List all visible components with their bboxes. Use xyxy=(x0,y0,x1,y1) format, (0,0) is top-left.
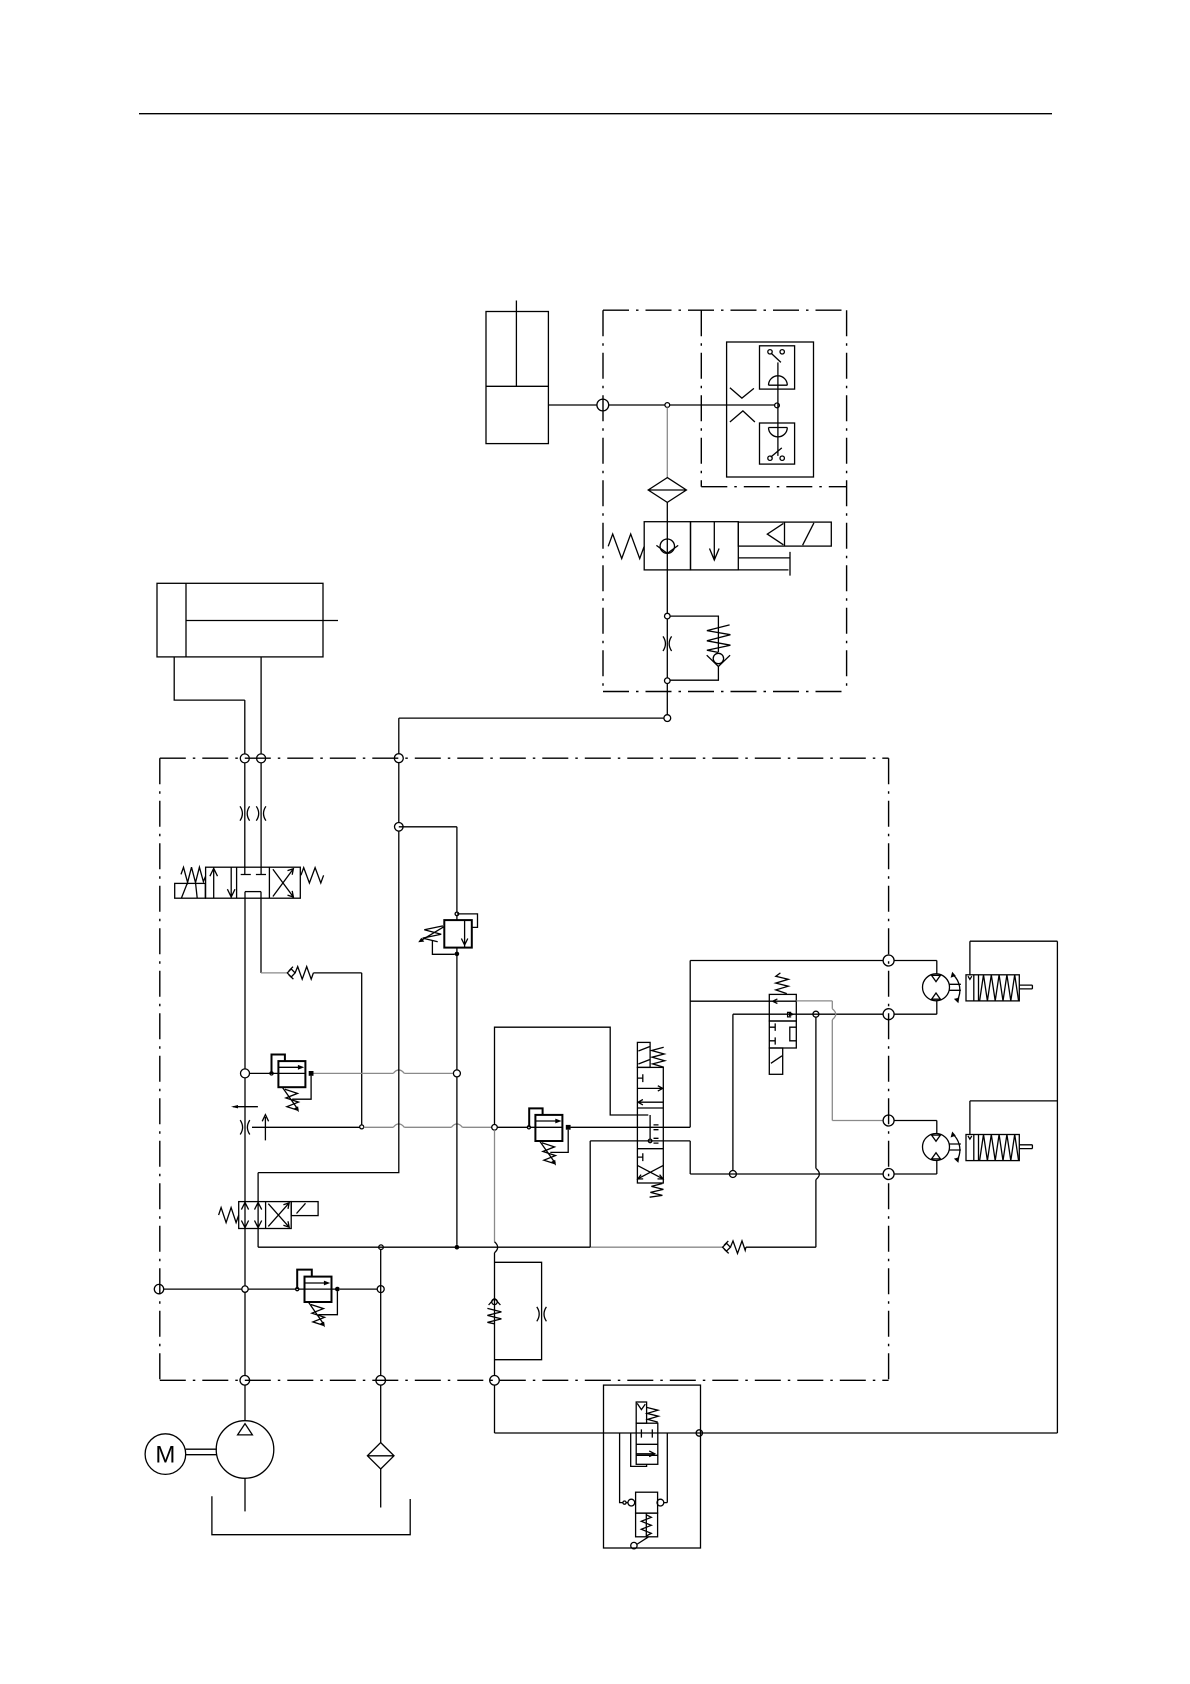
wire pilot supply branch xyxy=(252,1126,360,1128)
check valve CK2 with spring xyxy=(723,1241,746,1254)
node xyxy=(379,1245,384,1250)
valve DV1 (4/3 directional) xyxy=(206,867,301,898)
wire cylinder lines down to DV1 xyxy=(245,763,261,875)
cylinder C1 (top accumulator cylinder) xyxy=(486,301,548,444)
wire gray drain drop xyxy=(494,1130,496,1242)
wire feed line to main box xyxy=(399,718,664,822)
valve TV (vent/unloading) xyxy=(636,1402,658,1464)
node port circle on left edge xyxy=(154,1284,163,1293)
wire gray pilot to relief line xyxy=(314,1072,453,1074)
wire motor port 1 line xyxy=(690,961,883,1128)
return filter F2 xyxy=(367,1443,394,1469)
wire relief drain xyxy=(456,1077,458,1245)
motor M1 xyxy=(923,972,961,1003)
wire supply to left port xyxy=(164,1288,242,1290)
wire motor M1 links xyxy=(894,961,937,1015)
orifice on pump line xyxy=(240,1120,250,1134)
tank T1 xyxy=(212,1496,410,1535)
wire drop from port2 line xyxy=(732,1014,734,1170)
valve PR2 (pressure reducing) xyxy=(497,1108,570,1165)
solenoid DV2 xyxy=(291,1202,318,1216)
node xyxy=(665,613,671,619)
node on pump line xyxy=(241,1069,250,1078)
electric motor M xyxy=(145,1434,186,1475)
wire stack pilot loop xyxy=(495,1027,651,1139)
wire motor M2 links xyxy=(894,1121,937,1175)
wire to junction xyxy=(313,973,361,1125)
pressure switch PS2 (lower) xyxy=(760,423,795,464)
orifice pair on cylinder lines xyxy=(240,806,250,820)
block enclosure (pilot valve block) xyxy=(604,1385,701,1548)
wire below DV2 xyxy=(257,1229,259,1248)
valve LRV (pilot relief with lever) xyxy=(623,1433,667,1549)
dash-dot enclosure (top-right brake release unit) xyxy=(603,310,847,691)
wire tank/drain manifold line xyxy=(258,1246,590,1248)
pressure switch block frame xyxy=(727,342,814,477)
drain arrow on pump line xyxy=(233,1106,258,1108)
node port circle on box edge xyxy=(597,399,609,411)
wire motor port 4 line xyxy=(690,1173,883,1175)
valve V1 (2/2 solenoid brake valve) xyxy=(644,522,738,570)
drain stub V1 xyxy=(738,552,790,576)
throttle arrow xyxy=(262,1115,268,1141)
wire xyxy=(666,502,668,521)
wire C1 to brake block xyxy=(548,404,774,406)
wire DV2 feed jog xyxy=(258,831,399,1202)
cylinder C2 (left) xyxy=(157,583,338,657)
wire C2 ports xyxy=(174,657,261,754)
spring V1 xyxy=(608,534,644,559)
wire cylinder line 2 below valve xyxy=(260,892,262,973)
node xyxy=(453,1070,460,1077)
wire main drop xyxy=(666,570,668,715)
wire selector gray loop xyxy=(796,1001,883,1121)
shaft xyxy=(186,1449,217,1455)
spring DV2 xyxy=(219,1208,239,1223)
brake cylinder B2 xyxy=(966,1135,1032,1161)
node xyxy=(665,678,671,684)
node port circles on box bottom xyxy=(240,1376,250,1386)
node xyxy=(395,823,404,832)
main dash-dot enclosure (power unit) xyxy=(160,758,889,1380)
solenoid+spring DV1 left xyxy=(175,867,206,898)
svg-text:M: M xyxy=(155,1442,175,1469)
node on block edge xyxy=(696,1430,702,1436)
valve PR1 (pressure reducing) xyxy=(270,1055,314,1113)
node port circles on right edge xyxy=(883,955,894,966)
wire pilot drop (gray) xyxy=(666,407,668,477)
motor M2 xyxy=(923,1132,961,1163)
node port circles on box top xyxy=(240,754,249,763)
spring DV1 right xyxy=(301,868,324,883)
node xyxy=(813,1011,819,1017)
wire relief feed xyxy=(399,827,457,912)
node mid circle xyxy=(775,403,780,408)
brake cylinder B1 xyxy=(966,975,1032,1001)
valve DV2 (4/2 solenoid) xyxy=(239,1202,292,1229)
valve stack CB1 (counterbalance assembly) xyxy=(637,1042,664,1197)
check valve CK3 with spring on drain xyxy=(487,1298,501,1324)
valve SEL (brake selector 3/2) xyxy=(769,973,796,1074)
node junction dot xyxy=(455,1245,460,1250)
node tee to feed line xyxy=(664,715,671,722)
node xyxy=(242,1286,248,1292)
wire drain to bottom manifold xyxy=(495,1385,1058,1433)
pressure switch PS1 (upper) xyxy=(760,346,795,389)
valve PR3 (pressure reducing) xyxy=(296,1270,340,1328)
check valve CK1 with spring xyxy=(287,967,313,980)
wire brake pilot B2 xyxy=(970,1101,1058,1135)
wire return line xyxy=(380,1250,382,1443)
wire brake shuttle line through stack xyxy=(590,1140,690,1142)
wire reduced-pressure line xyxy=(250,1072,279,1074)
shuttle chevrons xyxy=(730,388,755,422)
bypass branch rect with orifice xyxy=(495,1262,547,1359)
pump P1 xyxy=(216,1421,274,1479)
orifice on drop xyxy=(663,636,672,651)
wire motor port 2 line xyxy=(733,1013,883,1015)
wire suction xyxy=(244,1478,246,1511)
wire (gray stub) xyxy=(261,972,287,974)
wire pump pressure line (main vertical) xyxy=(244,892,246,1421)
valve RV1 (relief) xyxy=(418,912,477,1070)
wire block internal left hook xyxy=(631,1433,647,1466)
check valve RV2 branch xyxy=(670,616,730,680)
filter F1 xyxy=(648,478,686,503)
wire vertical through switches xyxy=(777,362,779,456)
node xyxy=(729,1171,736,1178)
header rule xyxy=(139,113,1052,115)
node on return line xyxy=(377,1286,384,1293)
node gray junction xyxy=(492,1125,498,1131)
node junction xyxy=(665,403,670,408)
wire brake pilot B1 xyxy=(970,941,1058,975)
wire right return riser xyxy=(1056,941,1058,1433)
solenoid V1 xyxy=(738,522,831,546)
node xyxy=(360,1125,364,1129)
wire block left bypass xyxy=(620,1433,628,1503)
wire PR2 outlet into stack xyxy=(571,1126,691,1128)
